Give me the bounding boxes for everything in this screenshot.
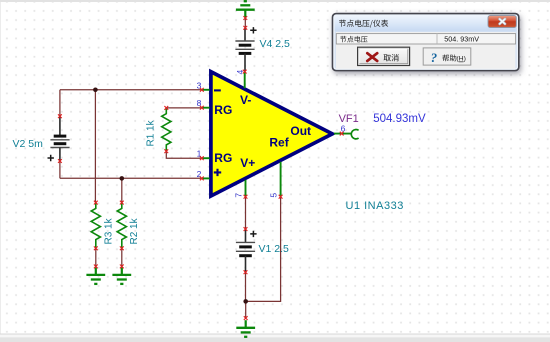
probe VF1 clip connector (351, 130, 358, 139)
ground GND1 (top, inverted) (236, 1, 255, 17)
battery V1 (236, 229, 257, 272)
wire V2 bottom pin down to corner (59, 161, 61, 178)
U1 pin 6 stub (output) (334, 133, 351, 135)
dialog result row (336, 34, 515, 44)
dialog 节点电压/仪表 (333, 14, 519, 71)
wire node C down to bottom ground GND4 (245, 301, 247, 318)
U1 pin 1 stub (202, 157, 210, 159)
wire R1 top to U1 pin 8 (166, 107, 202, 109)
dialog title text 节点电压/仪表 (339, 20, 388, 28)
wire node B down to R2 top (121, 178, 123, 202)
svg-text:504.93mV: 504.93mV (373, 113, 426, 125)
svg-text:RG: RG (214, 151, 232, 165)
wire bottom-horizontal from V2 corner to U1 pin 2 (60, 177, 202, 179)
svg-text:R2 1k: R2 1k (129, 217, 140, 244)
svg-text:V4 2.5: V4 2.5 (260, 38, 291, 50)
dialog content panel (336, 32, 516, 69)
ground GND3 (under R2) (121, 267, 123, 274)
dialog row label 节点电压 (340, 36, 367, 43)
U1 pin 2 stub (202, 177, 210, 179)
wire U1 pin 7 down to V1 + pin (245, 197, 247, 229)
svg-text:504. 93mV: 504. 93mV (444, 35, 479, 44)
U1 plus input marker (214, 169, 221, 176)
svg-text:V+: V+ (240, 156, 255, 170)
svg-text:V1 2.5: V1 2.5 (259, 243, 290, 255)
svg-text:?: ? (431, 50, 438, 65)
svg-text:Ref: Ref (269, 136, 289, 150)
wire node A down to R3 top (94, 90, 96, 203)
wire top-horizontal from V2 corner to U1 pin 3 (60, 89, 202, 91)
U1 minus input marker (214, 89, 221, 91)
resistor R2 (117, 203, 126, 249)
battery V4 (235, 27, 256, 71)
svg-text:RG: RG (214, 103, 232, 117)
wire-end connection markers (red x) (58, 16, 344, 320)
ground GND2 (under R3) (95, 267, 97, 274)
svg-text:Out: Out (290, 124, 311, 138)
wire V1 - pin down to node C (245, 272, 247, 301)
U1 pin 4 stub (244, 72, 246, 88)
wire U1 pin 5 (Ref) down and left to node C (246, 197, 281, 302)
svg-text:R3 1k: R3 1k (104, 217, 115, 244)
svg-text:5: 5 (269, 193, 279, 198)
dialog close button (488, 15, 516, 27)
svg-text:V-: V- (240, 93, 251, 107)
junction node B (120, 176, 125, 181)
dialog help button 帮助(H) (423, 48, 471, 65)
dialog cancel button 取消 (358, 47, 410, 65)
junction node C (243, 299, 248, 304)
U1 pin 8 stub (202, 107, 210, 109)
svg-text:(H): (H) (456, 56, 465, 63)
svg-text:R1 1k: R1 1k (146, 119, 157, 146)
U1 pin 3 stub (202, 89, 210, 91)
wire R3 bottom to ground GND2 (95, 248, 97, 266)
resistor R1 (162, 108, 171, 151)
ground GND4 (bottom, under node C) (245, 320, 247, 327)
wire top ground GND1 to V4 + pin (244, 18, 246, 28)
svg-text:U1 INA333: U1 INA333 (346, 200, 404, 212)
wire R1 bottom to U1 pin 1 (166, 151, 202, 158)
svg-text:V2 5m: V2 5m (13, 138, 44, 150)
wire V2 top corner down to V2 + pin (59, 90, 61, 116)
junction node A (93, 88, 98, 93)
battery V2 (48, 116, 70, 161)
wire R2 bottom to ground GND3 (121, 248, 123, 266)
svg-text:VF1: VF1 (339, 113, 359, 125)
U1 pin 7 stub (245, 180, 247, 197)
U1 pin 5 stub (280, 162, 282, 197)
op-amp U1 INA333 triangle body (211, 72, 332, 196)
resistor R3 (91, 203, 100, 249)
svg-text:7: 7 (234, 193, 244, 198)
